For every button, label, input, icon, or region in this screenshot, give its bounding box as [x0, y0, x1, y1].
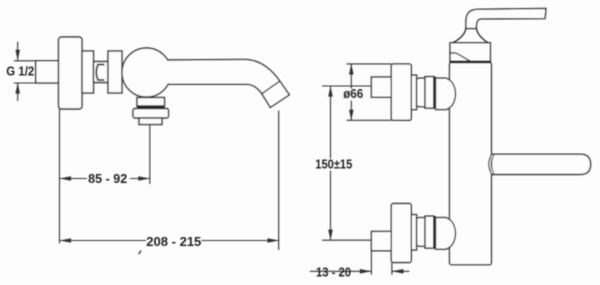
dim 208-215 line right — [202, 240, 280, 242]
arrow G1/2 top — [15, 50, 20, 61]
dim 13-20 line right — [392, 270, 409, 272]
cap dark bottom band — [450, 60, 490, 63]
bottom union: chamfer piece — [417, 218, 425, 247]
handle joint line — [466, 28, 477, 30]
dim G1/2 lower line — [17, 83, 19, 101]
arrow 13-20 left — [360, 269, 372, 274]
spout (front view) — [491, 154, 591, 174]
top union: wall flange — [391, 64, 411, 120]
top union: dark separator — [433, 77, 435, 109]
diverter outlet — [139, 118, 162, 125]
spout fillet arc inner — [492, 154, 494, 174]
wire: left extension line (wall face) — [59, 109, 61, 244]
top union: step ring — [411, 75, 416, 110]
spout nozzle joint line — [262, 81, 280, 94]
faucet body column (front view) — [450, 63, 492, 265]
dim o66 line — [350, 64, 352, 120]
wire: pipe bottom edge extension line — [14, 82, 36, 84]
dim o66 bottom extension line — [347, 119, 392, 121]
svg-text:G 1/2: G 1/2 — [6, 65, 34, 79]
wall plate escutcheon (left view) — [59, 37, 83, 109]
bottom union: ring — [425, 216, 434, 248]
dim 85-92 line left — [60, 178, 88, 180]
connector ring B — [108, 51, 122, 93]
arrow 85-92 right — [138, 176, 150, 181]
wire: 13-20 left extension line — [370, 251, 372, 275]
nut inner detail — [96, 65, 104, 81]
wire: diverter centerline — [149, 125, 151, 185]
svg-text:150±15: 150±15 — [315, 158, 352, 172]
arrow 150+-15 top — [328, 86, 333, 97]
arrow o66 bottom — [349, 110, 354, 121]
G1/2 supply pipe stub (left view) — [36, 61, 59, 83]
dim 208-215 line left — [60, 240, 147, 242]
bottom union: step ring — [411, 215, 416, 250]
connector ring A — [82, 51, 94, 93]
arrow 208-215 left — [60, 238, 72, 243]
diverter neck — [137, 98, 165, 107]
wire: right extension line (spout tip) — [278, 111, 280, 251]
cap diagonal line — [457, 53, 471, 61]
diverter dark band — [137, 106, 165, 109]
svg-text:208 - 215: 208 - 215 — [146, 235, 201, 249]
arrow 85-92 left — [60, 176, 72, 181]
bottom union: dome — [436, 218, 456, 250]
spout (left view) — [168, 59, 290, 107]
dim o66 top extension line — [347, 63, 392, 65]
svg-text:ø66: ø66 — [343, 87, 363, 101]
top union: dome — [436, 78, 456, 110]
top union: ring — [425, 77, 434, 109]
connecting nut — [94, 62, 109, 83]
svg-text:85 - 92: 85 - 92 — [88, 172, 127, 186]
arrow 13-20 right — [392, 269, 404, 274]
dim 150+-15 top extension line — [322, 85, 371, 87]
dim 150+-15 bottom extension line — [322, 239, 371, 241]
wire: pipe top edge extension line — [14, 60, 36, 62]
handle lever — [466, 8, 546, 28]
arrow G1/2 bottom — [15, 83, 20, 94]
dim G1/2 upper line — [17, 42, 19, 61]
handle bell flare — [453, 29, 488, 43]
arrow 208-215 right — [268, 238, 280, 243]
svg-text:13 - 20: 13 - 20 — [316, 265, 351, 279]
cap under handle — [450, 43, 490, 62]
dim 85-92 line right — [130, 178, 150, 180]
mixer ball body — [122, 48, 171, 97]
cap notch line — [450, 52, 457, 54]
dim 150+-15 line — [330, 86, 332, 240]
top union: supply pipe stub — [371, 77, 391, 97]
diverter flange — [133, 109, 169, 119]
spout fillet arc outer — [489, 155, 492, 175]
stray comma mark — [139, 251, 142, 255]
wire: 13-20 right extension line — [391, 263, 393, 275]
top union: chamfer piece — [417, 78, 425, 107]
dim 13-20 line left — [310, 270, 372, 272]
bottom union: wall flange — [391, 204, 411, 263]
arrow o66 top — [349, 64, 354, 75]
arrow 150+-15 bottom — [328, 230, 333, 241]
bottom union: dark separator — [433, 216, 435, 248]
bottom union: supply pipe stub — [371, 231, 391, 250]
